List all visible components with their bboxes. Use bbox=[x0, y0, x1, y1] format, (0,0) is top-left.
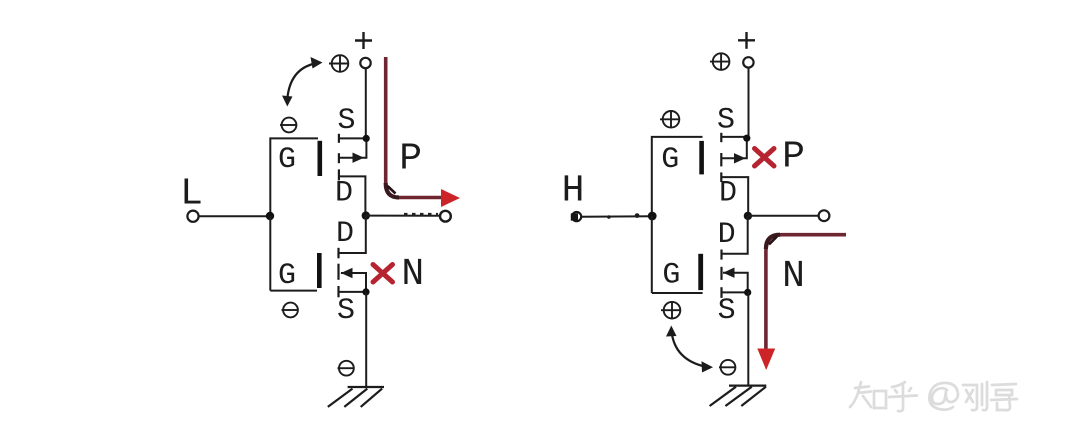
red path elbow chevron bbox=[386, 183, 399, 198]
right N-FET gate wire bbox=[652, 292, 703, 294]
ground symbol bbox=[328, 387, 384, 407]
ground symbol right bbox=[710, 386, 767, 406]
N-FET channel segments bbox=[337, 248, 339, 297]
svg-text:G: G bbox=[278, 143, 296, 177]
P-FET channel segments bbox=[338, 134, 340, 181]
right P-FET drain lead bbox=[721, 177, 748, 216]
P-FET body line bbox=[339, 138, 367, 157]
output terminal left bbox=[440, 211, 451, 222]
input junction dot bbox=[266, 212, 274, 220]
N-FET drain lead bbox=[339, 216, 366, 253]
N-FET source lead bbox=[339, 291, 367, 293]
svg-text:S: S bbox=[718, 294, 736, 328]
svg-text:S: S bbox=[337, 294, 355, 328]
P-FET body arrowhead bbox=[353, 153, 365, 163]
toggle arrowhead toward minus right bbox=[702, 361, 714, 372]
svg-text:D: D bbox=[719, 177, 737, 211]
svg-text:P: P bbox=[782, 136, 805, 179]
right N-FET body arrowhead bbox=[723, 268, 735, 278]
svg-text:P: P bbox=[399, 138, 422, 181]
red arrowhead N current bbox=[757, 349, 775, 371]
P-FET source lead bbox=[339, 137, 367, 139]
output terminal right bbox=[819, 210, 830, 221]
plus-charge symbol near VDD right bbox=[710, 53, 730, 70]
toggle arrowhead toward minus bbox=[282, 96, 293, 107]
input junction dot right bbox=[648, 212, 657, 221]
svg-text:G: G bbox=[662, 259, 680, 293]
svg-text:N: N bbox=[782, 255, 805, 298]
curved toggle arrow right bbox=[672, 331, 707, 367]
toggle arrowhead toward plus bbox=[311, 57, 323, 69]
ground wire right bbox=[747, 292, 749, 385]
red X over right P-FET bbox=[755, 149, 775, 167]
right P-FET body arrowhead bbox=[734, 153, 746, 163]
minus-charge symbol above gate bbox=[280, 118, 296, 133]
right P-FET gate wire bbox=[652, 137, 703, 216]
right N-FET body line bbox=[723, 273, 748, 293]
terminal VDD right bbox=[743, 57, 753, 67]
right N-FET source junction dot bbox=[744, 289, 751, 296]
output junction dot bbox=[362, 211, 370, 219]
input wire right bbox=[582, 215, 652, 218]
N-FET source junction dot bbox=[362, 288, 369, 295]
right S junction dot bbox=[743, 135, 750, 142]
supply + label bbox=[355, 32, 372, 49]
red path corner chevron bbox=[766, 235, 780, 249]
svg-text:S: S bbox=[717, 104, 735, 138]
N-FET body arrowhead bbox=[341, 268, 353, 278]
supply wire right bbox=[748, 68, 750, 139]
right N-FET channel segments bbox=[720, 250, 722, 298]
svg-text:G: G bbox=[278, 259, 296, 293]
svg-text:G: G bbox=[661, 143, 679, 177]
red arrowhead P current bbox=[441, 189, 460, 207]
watermark zhihu bbox=[850, 382, 1017, 411]
plus-charge symbol near VDD bbox=[329, 55, 349, 72]
right P-FET gate bar bbox=[699, 141, 704, 175]
right N-FET drain lead bbox=[722, 216, 748, 254]
svg-text:N: N bbox=[401, 253, 424, 296]
plus-charge symbol above right gate bbox=[660, 111, 680, 128]
output wire right bbox=[748, 215, 819, 217]
svg-text:D: D bbox=[335, 177, 353, 211]
N-FET gate wire bbox=[270, 290, 317, 292]
supply + label right bbox=[738, 32, 755, 49]
input terminal left bbox=[187, 211, 198, 222]
minus-charge symbol below gate bbox=[282, 303, 298, 318]
minus-charge symbol near ground bbox=[338, 361, 354, 376]
output wire dash artifacts bbox=[404, 213, 438, 216]
right N-FET gate bar bbox=[698, 254, 703, 290]
ground wire bbox=[365, 292, 367, 387]
N-FET body line bbox=[341, 273, 366, 292]
toggle arrowhead toward plus right bbox=[666, 326, 677, 337]
right P-FET source lead bbox=[721, 136, 747, 138]
svg-text:L: L bbox=[180, 173, 203, 216]
minus-charge symbol right bbox=[719, 360, 735, 375]
supply wire bbox=[365, 68, 367, 138]
plus-charge symbol below right gate bbox=[661, 302, 681, 319]
right N-FET source lead bbox=[722, 291, 748, 293]
red X over N-FET bbox=[373, 265, 393, 283]
red current path through P-MOSFET bbox=[386, 57, 443, 198]
terminal VDD left bbox=[360, 58, 370, 68]
node S junction dot bbox=[363, 135, 370, 142]
input wire dot artifacts bbox=[607, 213, 639, 219]
svg-text:D: D bbox=[718, 218, 736, 252]
right P-FET channel segments bbox=[720, 133, 722, 182]
P-FET gate bar bbox=[318, 141, 323, 176]
output wire bbox=[366, 215, 441, 217]
svg-text:H: H bbox=[562, 170, 585, 213]
gate bus wire bbox=[269, 216, 271, 291]
curved toggle arrow bbox=[287, 64, 315, 100]
gate bus wire right bbox=[651, 216, 653, 293]
P-FET drain lead bbox=[339, 176, 366, 215]
output junction dot right bbox=[744, 212, 752, 220]
right P-FET body line bbox=[721, 138, 747, 158]
input wire bbox=[199, 215, 270, 217]
P-FET gate wire bbox=[270, 138, 318, 216]
svg-text:S: S bbox=[337, 104, 355, 138]
N-FET gate bar bbox=[317, 253, 322, 288]
red current path through N-MOSFET bbox=[766, 235, 846, 350]
input terminal right bbox=[571, 213, 578, 220]
svg-text:D: D bbox=[336, 217, 354, 251]
